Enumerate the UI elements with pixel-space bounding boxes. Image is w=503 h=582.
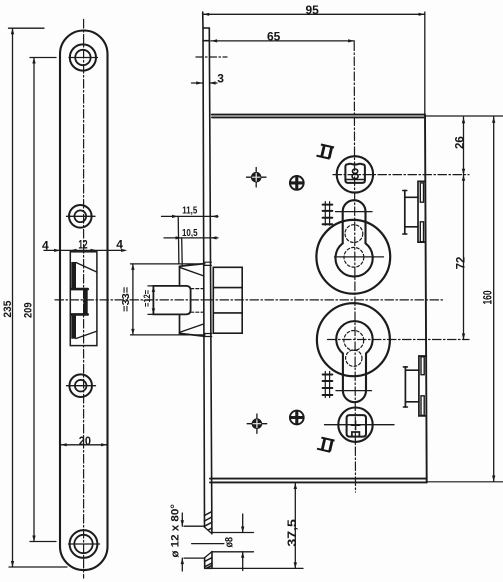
lock body top edge	[212, 115, 425, 118]
svg-text:=12=: =12=	[142, 290, 152, 307]
svg-text:=33=: =33=	[121, 287, 132, 312]
svg-text:12: 12	[78, 238, 87, 252]
lock body top edge extension right	[425, 115, 503, 117]
upper bracket tab top	[420, 183, 423, 202]
dimension 235 line	[12, 28, 14, 567]
strip section hatching upper	[204, 512, 212, 530]
upper profile narrow axis	[336, 211, 373, 213]
lower bracket tab top	[421, 357, 424, 375]
latch side view bottom inner slant	[180, 324, 204, 332]
lower euro profile cutout	[336, 321, 372, 402]
screw S2 phillips	[290, 176, 304, 190]
label 8 in follower	[352, 169, 358, 179]
faceplate front outline	[60, 31, 108, 571]
lower big circle	[317, 303, 390, 376]
upper big circle	[316, 220, 390, 294]
svg-text:ø8: ø8	[223, 537, 235, 548]
dimension 65	[211, 40, 354, 42]
latch bolt front middle bar	[83, 289, 87, 314]
bottom follower circle	[338, 408, 372, 442]
dimension 11,5	[162, 215, 219, 217]
faceplate edge strip right line	[209, 28, 212, 568]
label II bottom	[317, 437, 335, 452]
main horizontal axis	[55, 299, 444, 301]
svg-text:37,5: 37,5	[287, 518, 299, 546]
svg-text:10,5: 10,5	[182, 228, 198, 239]
lower bracket tab bottom	[421, 396, 424, 416]
upper big circle horizontal axis	[335, 256, 384, 258]
screw hole H1 top	[70, 44, 96, 70]
screw hole H2	[69, 205, 92, 228]
latch hidden edges dashed	[191, 289, 205, 313]
lower hidden cylinder dashed	[344, 331, 364, 351]
svg-text:4: 4	[42, 239, 49, 253]
faceplate vertical centerline	[83, 20, 85, 579]
dimension o12x80	[181, 513, 183, 571]
svg-text:95: 95	[306, 3, 320, 17]
screw S1	[251, 172, 262, 183]
lower bracket staple	[405, 367, 419, 407]
latch side view bottom edge	[180, 333, 205, 336]
upper euro profile cutout	[336, 200, 373, 276]
strip latch cutout edge marks	[204, 262, 212, 336]
latch bolt front lower bar	[71, 314, 76, 338]
lock body right edge	[425, 115, 427, 483]
dimension 209 line	[33, 58, 35, 542]
dimension 4-12-4 line	[44, 249, 125, 251]
latch bolt front steps	[71, 289, 87, 314]
countersink chamfer lines	[205, 527, 212, 558]
latch guide box right of strip	[213, 267, 242, 333]
dimension =33=	[132, 264, 134, 335]
dimension 10,5	[164, 237, 218, 239]
faceplate strip top cap	[203, 28, 209, 41]
faceplate strip bottom end	[205, 567, 212, 569]
svg-text:209: 209	[22, 303, 34, 319]
latch side view top inner slant	[180, 267, 204, 276]
upper bracket tab bottom	[420, 222, 423, 242]
latch side view left edge	[179, 266, 181, 333]
top follower circle	[337, 156, 373, 192]
dimension 160	[493, 117, 495, 482]
dimension o8	[213, 533, 254, 552]
svg-text:235: 235	[2, 301, 14, 318]
latch cutout outline	[70, 252, 97, 346]
screw hole H3	[69, 374, 92, 397]
svg-text:160: 160	[483, 291, 495, 305]
dimension 20 line	[61, 444, 108, 446]
svg-text:65: 65	[267, 29, 281, 43]
label II top	[316, 144, 334, 159]
strip section hatching lower	[205, 558, 212, 569]
upper hidden cylinder dashed	[345, 225, 363, 243]
cylinder vertical axis	[354, 42, 355, 492]
screw hole H4 bottom	[70, 530, 98, 558]
upper bracket outer	[418, 181, 426, 242]
latch bolt front upper bar	[71, 262, 76, 289]
latch head side view	[153, 286, 190, 315]
dimension =12=	[152, 286, 155, 315]
latch bolt bevel slants	[76, 263, 97, 339]
svg-text:20: 20	[79, 434, 91, 448]
upper bracket staple	[405, 191, 418, 235]
hole axis mark top (strip)	[196, 56, 227, 58]
lock body bottom edge extension right	[427, 481, 503, 483]
dimension 72	[463, 175, 465, 340]
screw S3	[252, 418, 263, 429]
dimension 26	[463, 117, 465, 175]
lower big circle horizontal axis	[328, 339, 470, 341]
lower profile narrow axis	[336, 390, 372, 392]
top follower horizontal axis	[333, 174, 469, 176]
svg-text:26: 26	[455, 136, 467, 149]
bottom follower horizontal axis	[325, 424, 395, 426]
hole axis mark bottom (strip)	[192, 543, 224, 545]
dimension 37,5	[294, 483, 296, 568]
dimension 3	[192, 82, 218, 84]
svg-text:72: 72	[455, 257, 467, 270]
svg-text:11,5: 11,5	[182, 205, 197, 216]
latch side view top edge	[180, 264, 205, 267]
top follower square hole 8mm	[345, 164, 365, 183]
bottom follower square hole	[347, 415, 366, 437]
faceplate edge strip left line	[203, 12, 205, 568]
lower spring ladder	[325, 372, 329, 398]
upper spring ladder	[325, 202, 329, 226]
svg-text:4: 4	[116, 238, 123, 252]
screw S4 phillips	[290, 411, 304, 425]
lock body bottom edge	[210, 479, 427, 483]
svg-text:3: 3	[217, 71, 224, 85]
lower bracket outer	[419, 356, 426, 416]
svg-text:ø 12 x 80°: ø 12 x 80°	[170, 504, 182, 558]
dimension 95	[203, 13, 425, 15]
bottom follower cross mark	[351, 421, 360, 430]
